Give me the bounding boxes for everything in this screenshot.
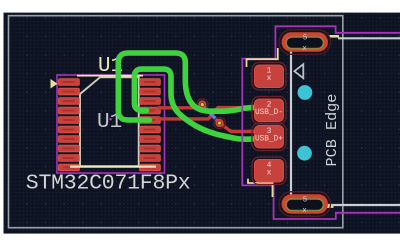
svg-text:x: x xyxy=(267,74,272,83)
svg-text:PCB Edge: PCB Edge xyxy=(323,94,341,167)
svg-text:x: x xyxy=(302,45,307,53)
svg-text:USB_D+: USB_D+ xyxy=(255,136,283,144)
svg-text:x: x xyxy=(302,207,307,215)
svg-text:5: 5 xyxy=(303,35,308,43)
svg-text:USB_D-: USB_D- xyxy=(255,109,283,117)
svg-text:5: 5 xyxy=(303,196,308,204)
svg-text:x: x xyxy=(267,169,272,178)
svg-text:STM32C071F8Px: STM32C071F8Px xyxy=(26,171,191,195)
